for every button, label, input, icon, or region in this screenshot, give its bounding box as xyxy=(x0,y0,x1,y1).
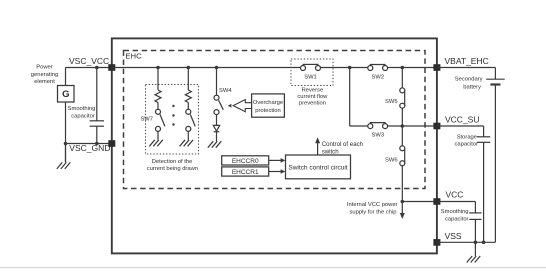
chip outline box xyxy=(112,38,437,253)
caption: Reverse current flow prevention xyxy=(297,88,328,107)
wire VSS collector xyxy=(437,241,496,243)
wire branch down to SW3 line xyxy=(349,68,351,127)
wire VSC_GND xyxy=(66,143,112,145)
terminal pad VSC_GND xyxy=(108,140,115,147)
svg-text:EHC: EHC xyxy=(125,52,142,61)
svg-text:Switch control circuit: Switch control circuit xyxy=(288,164,347,171)
wire internal VCC feed xyxy=(402,201,437,203)
switch SW2 (closed) xyxy=(368,65,388,71)
svg-text:generating: generating xyxy=(31,72,58,78)
svg-text:switch: switch xyxy=(322,149,339,156)
wire SW6 vertical xyxy=(401,126,403,146)
svg-text:VCC: VCC xyxy=(446,190,464,200)
svg-text:supply for the chip: supply for the chip xyxy=(349,210,396,216)
box: Switch control circuit xyxy=(286,155,351,179)
SW7 branch 1: ground xyxy=(149,131,163,146)
wire smoothing return xyxy=(474,219,476,242)
svg-text:Detection of the: Detection of the xyxy=(152,159,193,165)
junction dots on VSS xyxy=(474,241,478,245)
switch SW4 (open) xyxy=(214,95,223,114)
SW7 branch 1: resistor R1 xyxy=(155,68,161,110)
svg-text:Secondary: Secondary xyxy=(455,77,483,83)
svg-text:EHCCR1: EHCCR1 xyxy=(232,169,259,176)
wire storage return xyxy=(483,142,485,242)
svg-text:capacitor: capacitor xyxy=(445,216,469,222)
svg-text:SW3: SW3 xyxy=(372,132,385,138)
svg-text:VSC_GND: VSC_GND xyxy=(69,143,110,153)
SW7 dotted enclosure xyxy=(146,85,199,155)
svg-text:capacitor: capacitor xyxy=(71,113,95,119)
small filled arrow toward SW4 xyxy=(228,104,232,108)
wire VCC_SU to storage capacitor xyxy=(437,125,484,127)
svg-text:capacitor: capacitor xyxy=(454,142,478,148)
SW4 branch wire xyxy=(216,68,218,96)
switch SW6 (closed, vertical) xyxy=(400,146,405,166)
wire left rail (generator vertical) xyxy=(65,68,67,163)
svg-text:Reverse: Reverse xyxy=(302,88,324,94)
svg-text:element: element xyxy=(34,79,55,85)
label: Smoothing capacitor (left) xyxy=(68,106,96,119)
svg-text:battery: battery xyxy=(463,85,481,91)
arrow EHCCR1 to switch control xyxy=(269,169,286,174)
label: Power generating element xyxy=(31,65,58,85)
svg-text:VSS: VSS xyxy=(445,231,462,241)
svg-text:Control of each: Control of each xyxy=(322,141,363,148)
caption: Internal VCC power supply for the chip xyxy=(347,202,398,216)
box: Overcharge protection xyxy=(252,94,285,117)
svg-text:Smoothing: Smoothing xyxy=(68,106,96,112)
svg-text:SW2: SW2 xyxy=(372,75,385,81)
wire VSC_VCC (left supply rail to chip) xyxy=(66,67,112,69)
svg-text:Internal VCC power: Internal VCC power xyxy=(347,202,398,208)
ground (left, below VSC_GND) xyxy=(57,144,71,169)
caption: Secondary battery xyxy=(455,77,483,91)
switch SW5 (closed, vertical) xyxy=(400,88,405,108)
svg-text:protection: protection xyxy=(255,108,280,114)
svg-text:SW1: SW1 xyxy=(304,74,317,80)
SW1 dotted enclosure xyxy=(291,59,333,86)
junction dots on bus xyxy=(156,66,160,70)
svg-text:VBAT_EHC: VBAT_EHC xyxy=(445,56,489,66)
SW7 branch 2: switch (open) xyxy=(186,109,195,131)
caption: Storage capacitor xyxy=(454,134,478,147)
svg-text:SW5: SW5 xyxy=(385,99,398,105)
power generating element G xyxy=(58,86,75,103)
capacitor C_vcc (smoothing capacitor, right) xyxy=(469,213,481,220)
svg-text:current flow: current flow xyxy=(297,94,328,100)
terminal pad VCC_SU xyxy=(433,123,440,130)
SW7 branch 1: switch (open) xyxy=(156,109,165,131)
ellipsis dots between branches xyxy=(172,105,174,107)
svg-text:EHCCR0: EHCCR0 xyxy=(232,158,259,165)
capacitor C_su (storage capacitor) xyxy=(477,137,490,143)
svg-text:Storage: Storage xyxy=(457,134,477,140)
ground (right, below VSS) xyxy=(467,242,481,262)
svg-text:Smoothing: Smoothing xyxy=(441,209,469,215)
arrow EHCCR0 to switch control xyxy=(269,158,286,163)
battery (secondary battery) xyxy=(486,79,505,84)
EHC dashed block boundary xyxy=(124,51,426,189)
terminal pad VSS xyxy=(433,239,440,246)
SW7 branch 2: resistor R2 xyxy=(185,68,191,110)
svg-text:G: G xyxy=(62,89,69,100)
junction dot VCC feed xyxy=(401,200,405,204)
wire main bus (top, inside chip) xyxy=(112,67,301,69)
svg-text:current being drawn: current being drawn xyxy=(147,166,198,172)
svg-text:prevention: prevention xyxy=(299,100,326,106)
junction dot SW3/SW5 xyxy=(401,124,405,128)
arrow down internal VCC xyxy=(400,202,405,220)
junction dots left xyxy=(95,66,99,70)
svg-text:SW7: SW7 xyxy=(140,116,153,122)
arrow up: control of each switch xyxy=(315,137,320,155)
svg-text:Power: Power xyxy=(36,65,53,71)
caption: Control of each switch xyxy=(322,141,363,155)
page bottom edge artifact xyxy=(0,267,546,269)
terminal pad VCC xyxy=(433,198,440,205)
wire VBAT_EHC to battery xyxy=(437,67,496,69)
SW7 branch 2: ground xyxy=(180,131,194,146)
switch SW1 (closed) xyxy=(301,64,321,70)
svg-text:SW6: SW6 xyxy=(385,157,398,163)
caption: Detection of the current being drawn xyxy=(147,159,198,172)
wire battery return xyxy=(494,85,496,243)
hollow block arrow from overcharge protection xyxy=(233,100,251,112)
svg-text:VCC_SU: VCC_SU xyxy=(445,114,479,124)
switch SW3 (closed) xyxy=(368,123,388,129)
diode D1 xyxy=(213,115,219,132)
svg-text:SW4: SW4 xyxy=(219,88,232,94)
svg-text:VSC_VCC: VSC_VCC xyxy=(69,56,109,66)
svg-text:Overcharge: Overcharge xyxy=(253,100,283,106)
register box EHCCR0 xyxy=(222,156,269,165)
wire VCC to smoothing capacitor xyxy=(437,201,476,203)
terminal pad VBAT_EHC xyxy=(433,64,440,71)
terminal pad VSC_VCC xyxy=(108,64,115,71)
SW4 ground xyxy=(208,132,222,148)
capacitor C_vsc (smoothing capacitor, left) xyxy=(90,68,104,144)
register box EHCCR1 xyxy=(222,167,269,176)
wire SW5 vertical xyxy=(401,68,403,89)
caption: Smoothing capacitor (right) xyxy=(441,209,469,223)
